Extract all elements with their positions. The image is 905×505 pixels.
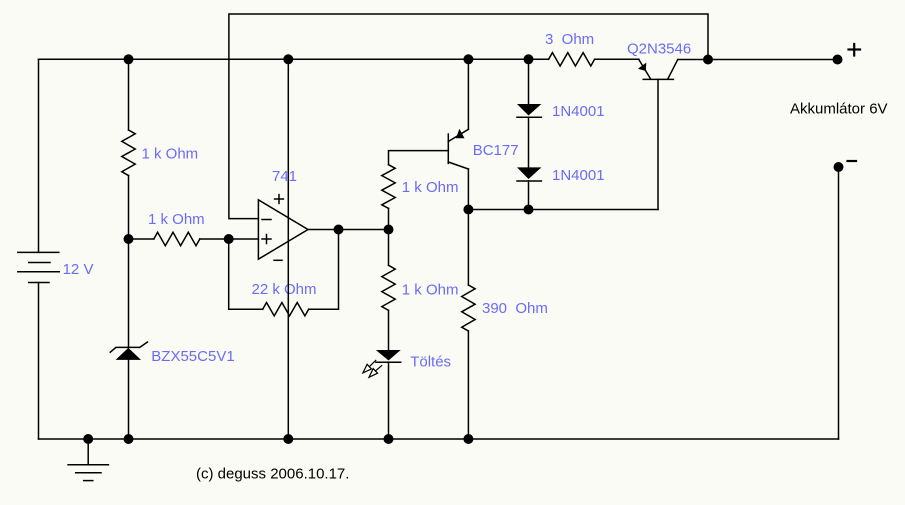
svg-text:1N4001: 1N4001 <box>552 167 605 184</box>
node op-amp + input / R3 <box>224 234 234 244</box>
transistor Q1 BC177 <box>448 129 468 169</box>
node ground rail / op-amp V- <box>283 434 293 444</box>
wire BC177 collector down to mid node <box>467 169 469 210</box>
svg-text:741: 741 <box>272 168 297 185</box>
ground symbol <box>68 439 108 481</box>
svg-text:1 k Ohm: 1 k Ohm <box>402 282 459 299</box>
wire + input node down to 22k feedback resistor <box>229 239 263 309</box>
node top rail / D1 <box>524 54 534 64</box>
node op-amp output / R3 <box>334 225 344 235</box>
svg-text:12 V: 12 V <box>63 261 94 278</box>
terminal - (Akkumlator) <box>834 162 844 172</box>
wire BC177 emitter up to top rail <box>467 59 469 129</box>
resistor R3 22 k Ohm (horizontal feedback) <box>263 303 309 316</box>
op-amp V+ plus sign <box>275 195 284 204</box>
op-amp V- minus sign <box>274 259 282 261</box>
battery B1 12 V <box>18 59 60 439</box>
LED D4 Toltes <box>376 350 401 439</box>
svg-text:Q2N3546: Q2N3546 <box>627 41 691 58</box>
svg-text:22 k Ohm: 22 k Ohm <box>252 281 317 298</box>
resistor R4 1 k Ohm (vertical, BC177 base) <box>382 165 395 209</box>
op-amp U1 741 <box>258 200 308 259</box>
node R1 / R2 / zener <box>124 234 134 244</box>
svg-text:390 Ohm: 390 Ohm <box>482 300 548 317</box>
wire top rail to Q2 emitter <box>595 58 639 60</box>
wire top +12V rail left part <box>39 58 549 60</box>
resistor R6 390 Ohm (vertical) <box>467 210 469 286</box>
diode D2 1N4001 <box>517 117 541 209</box>
node top rail / BC177 emitter <box>463 54 473 64</box>
zener diode D3 BZX55C5V1 <box>110 342 147 360</box>
wire 22k right end up to output node <box>309 230 339 310</box>
svg-text:1N4001: 1N4001 <box>552 103 605 120</box>
wire output node to + terminal <box>708 59 838 61</box>
wire Q2 base vertical <box>657 79 659 209</box>
wire feedback: output node up and across to op-amp inverting input <box>229 14 708 219</box>
svg-text:3 Ohm: 3 Ohm <box>545 31 594 48</box>
node top rail / R1 <box>124 54 134 64</box>
LED light emission arrows <box>363 360 382 377</box>
resistor R1 1 k Ohm (upper left, vertical) <box>122 130 135 176</box>
svg-text:(c) deguss 2006.10.17.: (c) deguss 2006.10.17. <box>196 466 349 483</box>
svg-text:1 k Ohm: 1 k Ohm <box>402 179 459 196</box>
minus terminal sign <box>848 160 857 162</box>
svg-text:1 k Ohm: 1 k Ohm <box>142 145 199 162</box>
svg-text:BC177: BC177 <box>473 142 519 159</box>
resistor R2 1 k Ohm (horizontal, to + input) <box>129 238 154 240</box>
wire zener to ground rail <box>128 360 130 439</box>
node ground rail / LED branch <box>384 434 394 444</box>
wire base resistor top to BC177 base <box>389 151 449 165</box>
node BC177 collector / R6 / mid wire <box>463 205 473 215</box>
wire op-amp output <box>308 229 389 231</box>
wire bottom ground rail <box>39 438 839 440</box>
resistor R5 3 Ohm <box>549 53 595 66</box>
node output (Q2 collector / feedback) <box>703 55 713 65</box>
wire left branch down from top rail <box>128 59 130 130</box>
resistor R7 1 k Ohm (vertical, LED) <box>388 230 390 266</box>
node op-amp output / R4 / R7 <box>384 225 394 235</box>
svg-text:1 k Ohm: 1 k Ohm <box>148 211 205 228</box>
svg-text:Akkumlátor 6V: Akkumlátor 6V <box>790 101 888 118</box>
wire right side: minus terminal down to ground rail <box>838 167 840 439</box>
op-amp inverting input minus sign <box>262 219 271 221</box>
node D2 / mid wire <box>524 205 534 215</box>
wire mid node horizontal to Q2 base <box>468 209 658 211</box>
op-amp supply wire (V+ from top rail through to ground rail V-) <box>287 59 289 439</box>
wire R1 to zener node <box>128 176 130 348</box>
diode D1 1N4001 <box>517 59 541 117</box>
node ground rail / zener branch <box>124 434 134 444</box>
node ground rail / R6 branch <box>463 434 473 444</box>
wire output node up through base resistor to BC177 base <box>388 208 390 229</box>
plus terminal sign <box>849 44 861 56</box>
svg-text:Töltés: Töltés <box>410 354 451 371</box>
op-amp non-inverting input plus sign <box>262 235 271 244</box>
terminal + (Akkumlator) <box>833 55 843 65</box>
svg-text:BZX55C5V1: BZX55C5V1 <box>151 348 234 365</box>
node top rail / op-amp V+ <box>283 54 293 64</box>
node ground rail / ground symbol <box>83 434 93 444</box>
transistor Q2 Q2N3546 <box>638 60 708 80</box>
